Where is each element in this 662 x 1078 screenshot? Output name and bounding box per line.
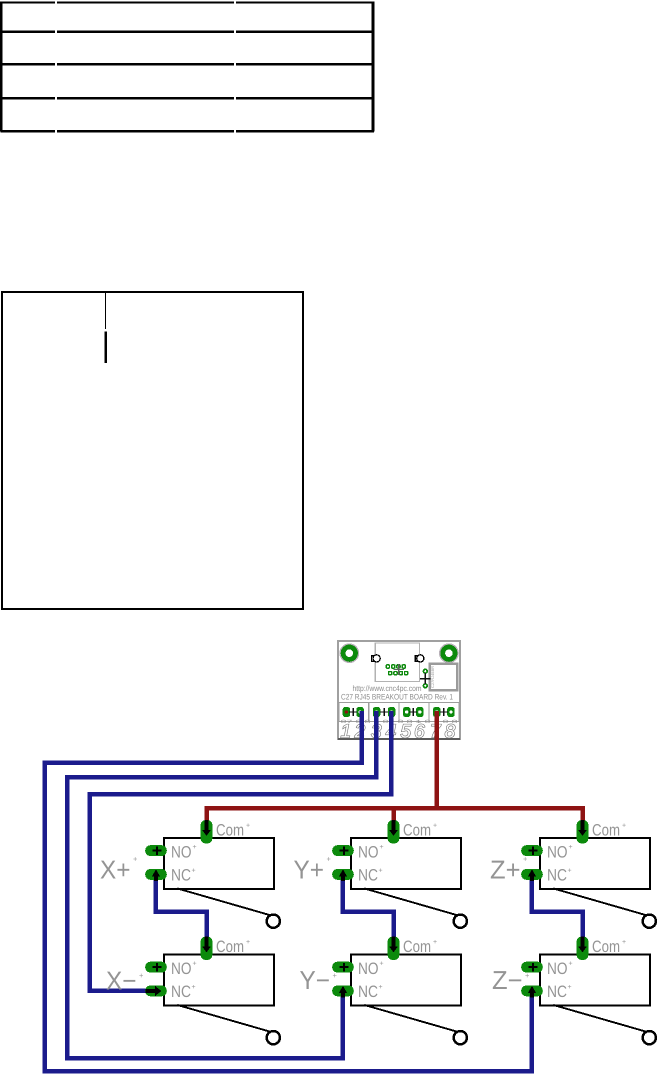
X- NC arrow <box>146 987 162 996</box>
svg-text:+: + <box>193 844 197 851</box>
Z- roller <box>643 1031 656 1044</box>
X- Com pad <box>201 937 213 961</box>
jack origin cross <box>393 664 404 675</box>
svg-text:+: + <box>523 855 528 864</box>
X- body <box>164 955 274 1006</box>
X+ NO cross <box>153 846 162 855</box>
X- lever <box>178 1005 274 1033</box>
Y+ Com arrow <box>389 820 397 836</box>
svg-text:+: + <box>192 984 196 991</box>
svg-text:6: 6 <box>414 721 425 742</box>
Z+ Com arrow <box>578 820 586 836</box>
switch X+ <box>100 820 280 928</box>
Y+ body <box>351 838 461 889</box>
svg-text:+: + <box>333 971 338 980</box>
Y+ roller <box>454 915 467 928</box>
X- NC pad <box>145 986 167 997</box>
switch Z+ <box>490 820 656 928</box>
terminal pad 1 <box>343 707 351 717</box>
svg-text:+: + <box>193 961 197 968</box>
component R1 body <box>430 664 458 690</box>
Y- body <box>351 955 461 1006</box>
terminal pad 7 <box>433 707 441 717</box>
svg-text:X+: X+ <box>100 855 131 885</box>
Y- NC arrow <box>339 986 347 998</box>
X+ Com arrow <box>202 820 210 836</box>
svg-text:NC: NC <box>547 983 567 1001</box>
Y- Com pad <box>388 937 400 961</box>
Z- NO pad <box>521 962 543 973</box>
jack post left <box>372 655 381 662</box>
mounting hole left <box>340 644 358 662</box>
box middle-left <box>2 292 303 609</box>
wire terminal2 to Z- NC (blue) <box>45 711 532 1071</box>
Y+ NC arrow <box>339 869 347 881</box>
Z- lever <box>554 1005 650 1033</box>
Y- Com arrow <box>389 937 397 953</box>
svg-text:NC: NC <box>171 983 191 1001</box>
svg-text:1: 1 <box>341 721 352 742</box>
table top-left <box>0 1 374 132</box>
wire X+ NC to X- Com (blue) <box>156 879 207 938</box>
jack post right <box>415 655 424 662</box>
Y- NO cross <box>340 963 349 972</box>
svg-text:+: + <box>192 868 196 875</box>
X+ lever <box>178 889 274 917</box>
terminal pad 8 <box>447 707 455 717</box>
svg-text:Com: Com <box>403 938 431 956</box>
Z+ Com pad <box>577 820 589 844</box>
terminal block X1 <box>339 703 459 722</box>
Z+ NC pad <box>521 869 543 880</box>
svg-text:C27RJ45BR: C27RJ45BR <box>430 666 435 688</box>
terminal pad 1 wire dot <box>345 710 348 713</box>
X+ Com pad <box>201 820 213 844</box>
svg-text:http://www.cnc4pc.com: http://www.cnc4pc.com <box>353 684 422 693</box>
X+ NO pad <box>145 845 167 856</box>
breakout board outline <box>338 641 460 739</box>
R1 pad 2 <box>423 683 428 688</box>
X+ body <box>164 838 274 889</box>
Z- NC pad <box>521 986 543 997</box>
cursor mark <box>105 332 107 364</box>
svg-text:C27 RJ45 BREAKOUT BOARD Rev. 1: C27 RJ45 BREAKOUT BOARD Rev. 1 <box>341 693 453 702</box>
svg-text:+: + <box>379 984 383 991</box>
Z- body <box>540 955 650 1006</box>
Y+ NO pad <box>332 845 354 856</box>
wire Y+ NC to Y- Com (blue) <box>343 879 394 938</box>
svg-text:+: + <box>380 844 384 851</box>
svg-text:NO: NO <box>547 960 568 978</box>
svg-text:8: 8 <box>445 721 456 742</box>
Z- Com arrow <box>578 937 586 953</box>
svg-text:+: + <box>569 961 573 968</box>
svg-text:+: + <box>525 971 530 980</box>
wire terminal7 to Com bus (red) <box>434 711 439 808</box>
switch X- <box>106 937 280 1045</box>
svg-text:+: + <box>433 823 437 830</box>
svg-text:5: 5 <box>400 721 411 742</box>
svg-text:Com: Com <box>592 938 620 956</box>
jack pin pads row 1 <box>386 664 407 669</box>
Y- roller <box>454 1031 467 1044</box>
svg-text:+: + <box>568 984 572 991</box>
svg-text:X−: X− <box>106 966 137 996</box>
wire terminal3 to Y- NC (blue) <box>67 711 376 1058</box>
svg-text:NO: NO <box>358 960 379 978</box>
svg-text:+: + <box>133 855 138 864</box>
svg-text:+: + <box>622 939 626 946</box>
Y- lever <box>365 1005 461 1033</box>
svg-text:Com: Com <box>216 938 244 956</box>
X- Com arrow <box>202 937 210 953</box>
svg-text:Com: Com <box>592 822 620 840</box>
Z+ roller <box>643 915 656 928</box>
X- roller <box>267 1031 280 1044</box>
svg-text:Y−: Y− <box>300 965 331 995</box>
svg-text:Z+: Z+ <box>490 855 521 885</box>
Z+ body <box>540 838 650 889</box>
svg-text:NC: NC <box>358 867 378 885</box>
svg-text:Y+: Y+ <box>294 855 325 885</box>
R1 pad 1 <box>423 669 428 674</box>
switch Z- <box>492 937 656 1045</box>
Y+ NC pad <box>332 869 354 880</box>
switch Y+ <box>294 820 467 928</box>
terminal pair cross 3 <box>409 708 417 716</box>
svg-text:+: + <box>139 971 144 980</box>
red drop to Y+ Com <box>391 808 396 821</box>
Y- NO pad <box>332 962 354 973</box>
Z+ NC arrow <box>528 869 536 881</box>
svg-text:Com: Com <box>403 822 431 840</box>
Z- NC arrow <box>528 986 536 998</box>
svg-text:NC: NC <box>358 983 378 1001</box>
terminal pair cross 4 <box>440 708 448 716</box>
Z+ NO cross <box>529 846 538 855</box>
X+ roller <box>267 915 280 928</box>
svg-text:+: + <box>246 939 250 946</box>
Y- NC pad <box>332 986 354 997</box>
X- NO cross <box>153 963 162 972</box>
svg-text:Com: Com <box>216 822 244 840</box>
svg-text:+: + <box>379 868 383 875</box>
wire terminal4 to X- NC (blue) <box>90 711 392 991</box>
RJ45 jack J1 footprint <box>375 643 419 682</box>
mounting hole right <box>440 644 458 662</box>
svg-text:+: + <box>622 823 626 830</box>
switch Y- <box>300 937 467 1045</box>
svg-text:NC: NC <box>547 867 567 885</box>
Z+ NO pad <box>521 845 543 856</box>
svg-text:+: + <box>380 961 384 968</box>
X+ NC pad <box>145 869 167 880</box>
svg-text:NO: NO <box>171 960 192 978</box>
svg-text:NO: NO <box>171 843 192 861</box>
cell divider line <box>104 293 106 329</box>
terminal pair cross 2 <box>380 708 388 716</box>
Y+ Com pad <box>388 820 400 844</box>
svg-text:+: + <box>246 823 250 830</box>
red Com bus horizontal <box>207 808 583 821</box>
Z- NO cross <box>529 963 538 972</box>
X+ NC arrow <box>152 869 160 881</box>
svg-text:Z−: Z− <box>492 965 523 995</box>
Z- Com pad <box>577 937 589 961</box>
terminal pad 3 <box>373 707 381 717</box>
terminal pad 6 <box>416 707 424 717</box>
Z+ lever <box>554 889 650 917</box>
svg-text:NC: NC <box>171 867 191 885</box>
svg-text:+: + <box>433 939 437 946</box>
wire Z+ NC to Z- Com (blue) <box>532 879 583 938</box>
svg-text:NO: NO <box>547 843 568 861</box>
Y+ NO cross <box>340 846 349 855</box>
terminal pair cross 1 <box>349 708 357 716</box>
svg-text:+: + <box>568 868 572 875</box>
jack pin pads row 2 <box>388 671 409 676</box>
Y+ lever <box>365 889 461 917</box>
terminal pad 2 <box>356 707 364 717</box>
X- NO pad <box>145 962 167 973</box>
terminal pad 5 <box>403 707 411 717</box>
terminal pad 4 <box>388 707 396 717</box>
terminal numbers 1-8 <box>341 721 456 742</box>
R1 origin cross <box>420 673 431 684</box>
svg-text:NO: NO <box>358 843 379 861</box>
svg-text:+: + <box>327 855 332 864</box>
svg-text:+: + <box>569 844 573 851</box>
